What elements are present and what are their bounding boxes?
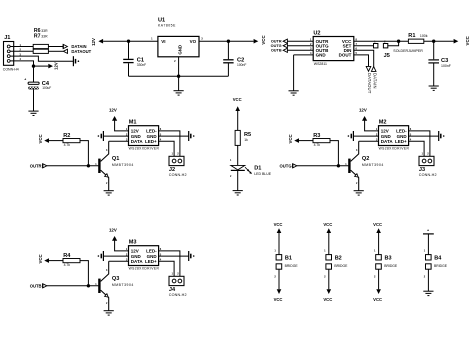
svg-text:VCC: VCC — [465, 35, 470, 45]
svg-text:J5: J5 — [384, 53, 390, 59]
svg-text:VCC: VCC — [323, 297, 332, 302]
svg-text:MMBT3904: MMBT3904 — [362, 163, 384, 167]
svg-text:VCC: VCC — [38, 253, 43, 263]
svg-text:WS28XXDRIVER: WS28XXDRIVER — [379, 147, 410, 151]
svg-text:GND: GND — [316, 53, 327, 58]
svg-text:B1: B1 — [285, 255, 292, 261]
svg-text:100nF: 100nF — [441, 64, 451, 68]
svg-text:VCC: VCC — [373, 222, 382, 227]
svg-text:OUTG: OUTG — [279, 163, 291, 168]
svg-text:M2: M2 — [379, 120, 387, 126]
svg-text:VO: VO — [190, 39, 197, 44]
svg-text:DATAOUT: DATAOUT — [367, 73, 372, 94]
svg-text:M3: M3 — [129, 240, 137, 246]
svg-text:BRIDGE: BRIDGE — [285, 264, 299, 268]
svg-text:DATA: DATA — [131, 259, 144, 264]
svg-text:CONN-H4: CONN-H4 — [3, 67, 19, 71]
svg-text:VCC: VCC — [323, 222, 332, 227]
svg-text:4.7k: 4.7k — [64, 143, 71, 147]
svg-text:VCC: VCC — [373, 297, 382, 302]
svg-text:VCC: VCC — [233, 97, 242, 102]
svg-text:LED BLUE: LED BLUE — [254, 172, 272, 176]
svg-text:DATA: DATA — [381, 139, 394, 144]
svg-text:BRIDGE: BRIDGE — [384, 264, 398, 268]
svg-text:WS28XXDRIVER: WS28XXDRIVER — [129, 147, 160, 151]
svg-text:J4: J4 — [169, 287, 176, 293]
svg-text:J2: J2 — [169, 167, 175, 173]
svg-text:DATAOUT: DATAOUT — [71, 49, 91, 54]
svg-text:CONN-H2: CONN-H2 — [169, 173, 187, 177]
svg-text:R1: R1 — [408, 33, 415, 39]
svg-text:MMBT3904: MMBT3904 — [112, 283, 134, 287]
svg-text:U2: U2 — [313, 30, 320, 36]
svg-text:J3: J3 — [419, 167, 425, 173]
svg-text:Q2: Q2 — [362, 156, 369, 162]
svg-text:OUTR: OUTR — [271, 40, 282, 44]
svg-text:M1: M1 — [129, 120, 137, 126]
svg-text:12V: 12V — [54, 62, 59, 70]
svg-text:12V: 12V — [109, 107, 117, 112]
svg-text:VI: VI — [161, 39, 165, 44]
svg-text:12V: 12V — [359, 107, 367, 112]
svg-text:LED+: LED+ — [145, 139, 157, 144]
svg-text:B3: B3 — [385, 255, 392, 261]
svg-text:12V: 12V — [91, 38, 96, 46]
svg-text:VCC: VCC — [274, 222, 283, 227]
svg-text:12V: 12V — [109, 227, 117, 232]
svg-text:+: + — [427, 229, 429, 233]
svg-text:VCC: VCC — [288, 133, 293, 143]
svg-text:33R: 33R — [41, 34, 48, 38]
svg-text:D1: D1 — [254, 166, 261, 172]
svg-text:100nF: 100nF — [237, 63, 246, 67]
svg-text:B4: B4 — [434, 255, 442, 261]
svg-text:VCC: VCC — [38, 133, 43, 143]
svg-text:WS28XXDRIVER: WS28XXDRIVER — [129, 267, 160, 271]
svg-text:LED+: LED+ — [395, 139, 407, 144]
svg-text:SOLDERJUMPER: SOLDERJUMPER — [393, 49, 423, 53]
svg-text:100k: 100k — [420, 34, 428, 38]
svg-text:MMBT3904: MMBT3904 — [112, 163, 134, 167]
svg-text:CONN-H2: CONN-H2 — [419, 173, 437, 177]
svg-text:R4: R4 — [63, 253, 71, 259]
svg-text:GND: GND — [178, 45, 183, 55]
svg-text:KA7805E: KA7805E — [158, 23, 176, 27]
svg-text:OUTB: OUTB — [271, 49, 282, 53]
svg-text:Q1: Q1 — [112, 156, 119, 162]
svg-text:DATA: DATA — [131, 139, 144, 144]
svg-text:4.7k: 4.7k — [64, 263, 71, 267]
svg-text:330nF: 330nF — [137, 63, 146, 67]
svg-text:CONN-H2: CONN-H2 — [169, 293, 187, 297]
svg-text:OUTG: OUTG — [271, 44, 282, 48]
svg-text:B2: B2 — [335, 255, 342, 261]
svg-text:Q3: Q3 — [112, 276, 119, 282]
svg-text:OUTB: OUTB — [30, 283, 42, 288]
svg-text:VCC: VCC — [261, 35, 266, 45]
svg-text:33R: 33R — [41, 29, 48, 33]
svg-text:DOUT: DOUT — [339, 53, 352, 58]
svg-text:LED+: LED+ — [145, 259, 157, 264]
svg-text:1k: 1k — [244, 138, 248, 142]
svg-text:DATAIN: DATAIN — [372, 73, 377, 89]
svg-text:J1: J1 — [4, 35, 10, 41]
svg-text:OUTR: OUTR — [30, 163, 42, 168]
svg-text:4.7k: 4.7k — [314, 143, 321, 147]
svg-text:BRIDGE: BRIDGE — [334, 264, 348, 268]
svg-text:+: + — [24, 78, 26, 82]
svg-text:100uF: 100uF — [42, 86, 51, 90]
svg-text:WS2811: WS2811 — [314, 62, 327, 66]
svg-text:VCC: VCC — [274, 297, 283, 302]
svg-text:R3: R3 — [313, 133, 320, 139]
svg-text:R2: R2 — [63, 133, 70, 139]
svg-text:R7: R7 — [34, 34, 41, 40]
svg-text:BRIDGE: BRIDGE — [434, 264, 448, 268]
